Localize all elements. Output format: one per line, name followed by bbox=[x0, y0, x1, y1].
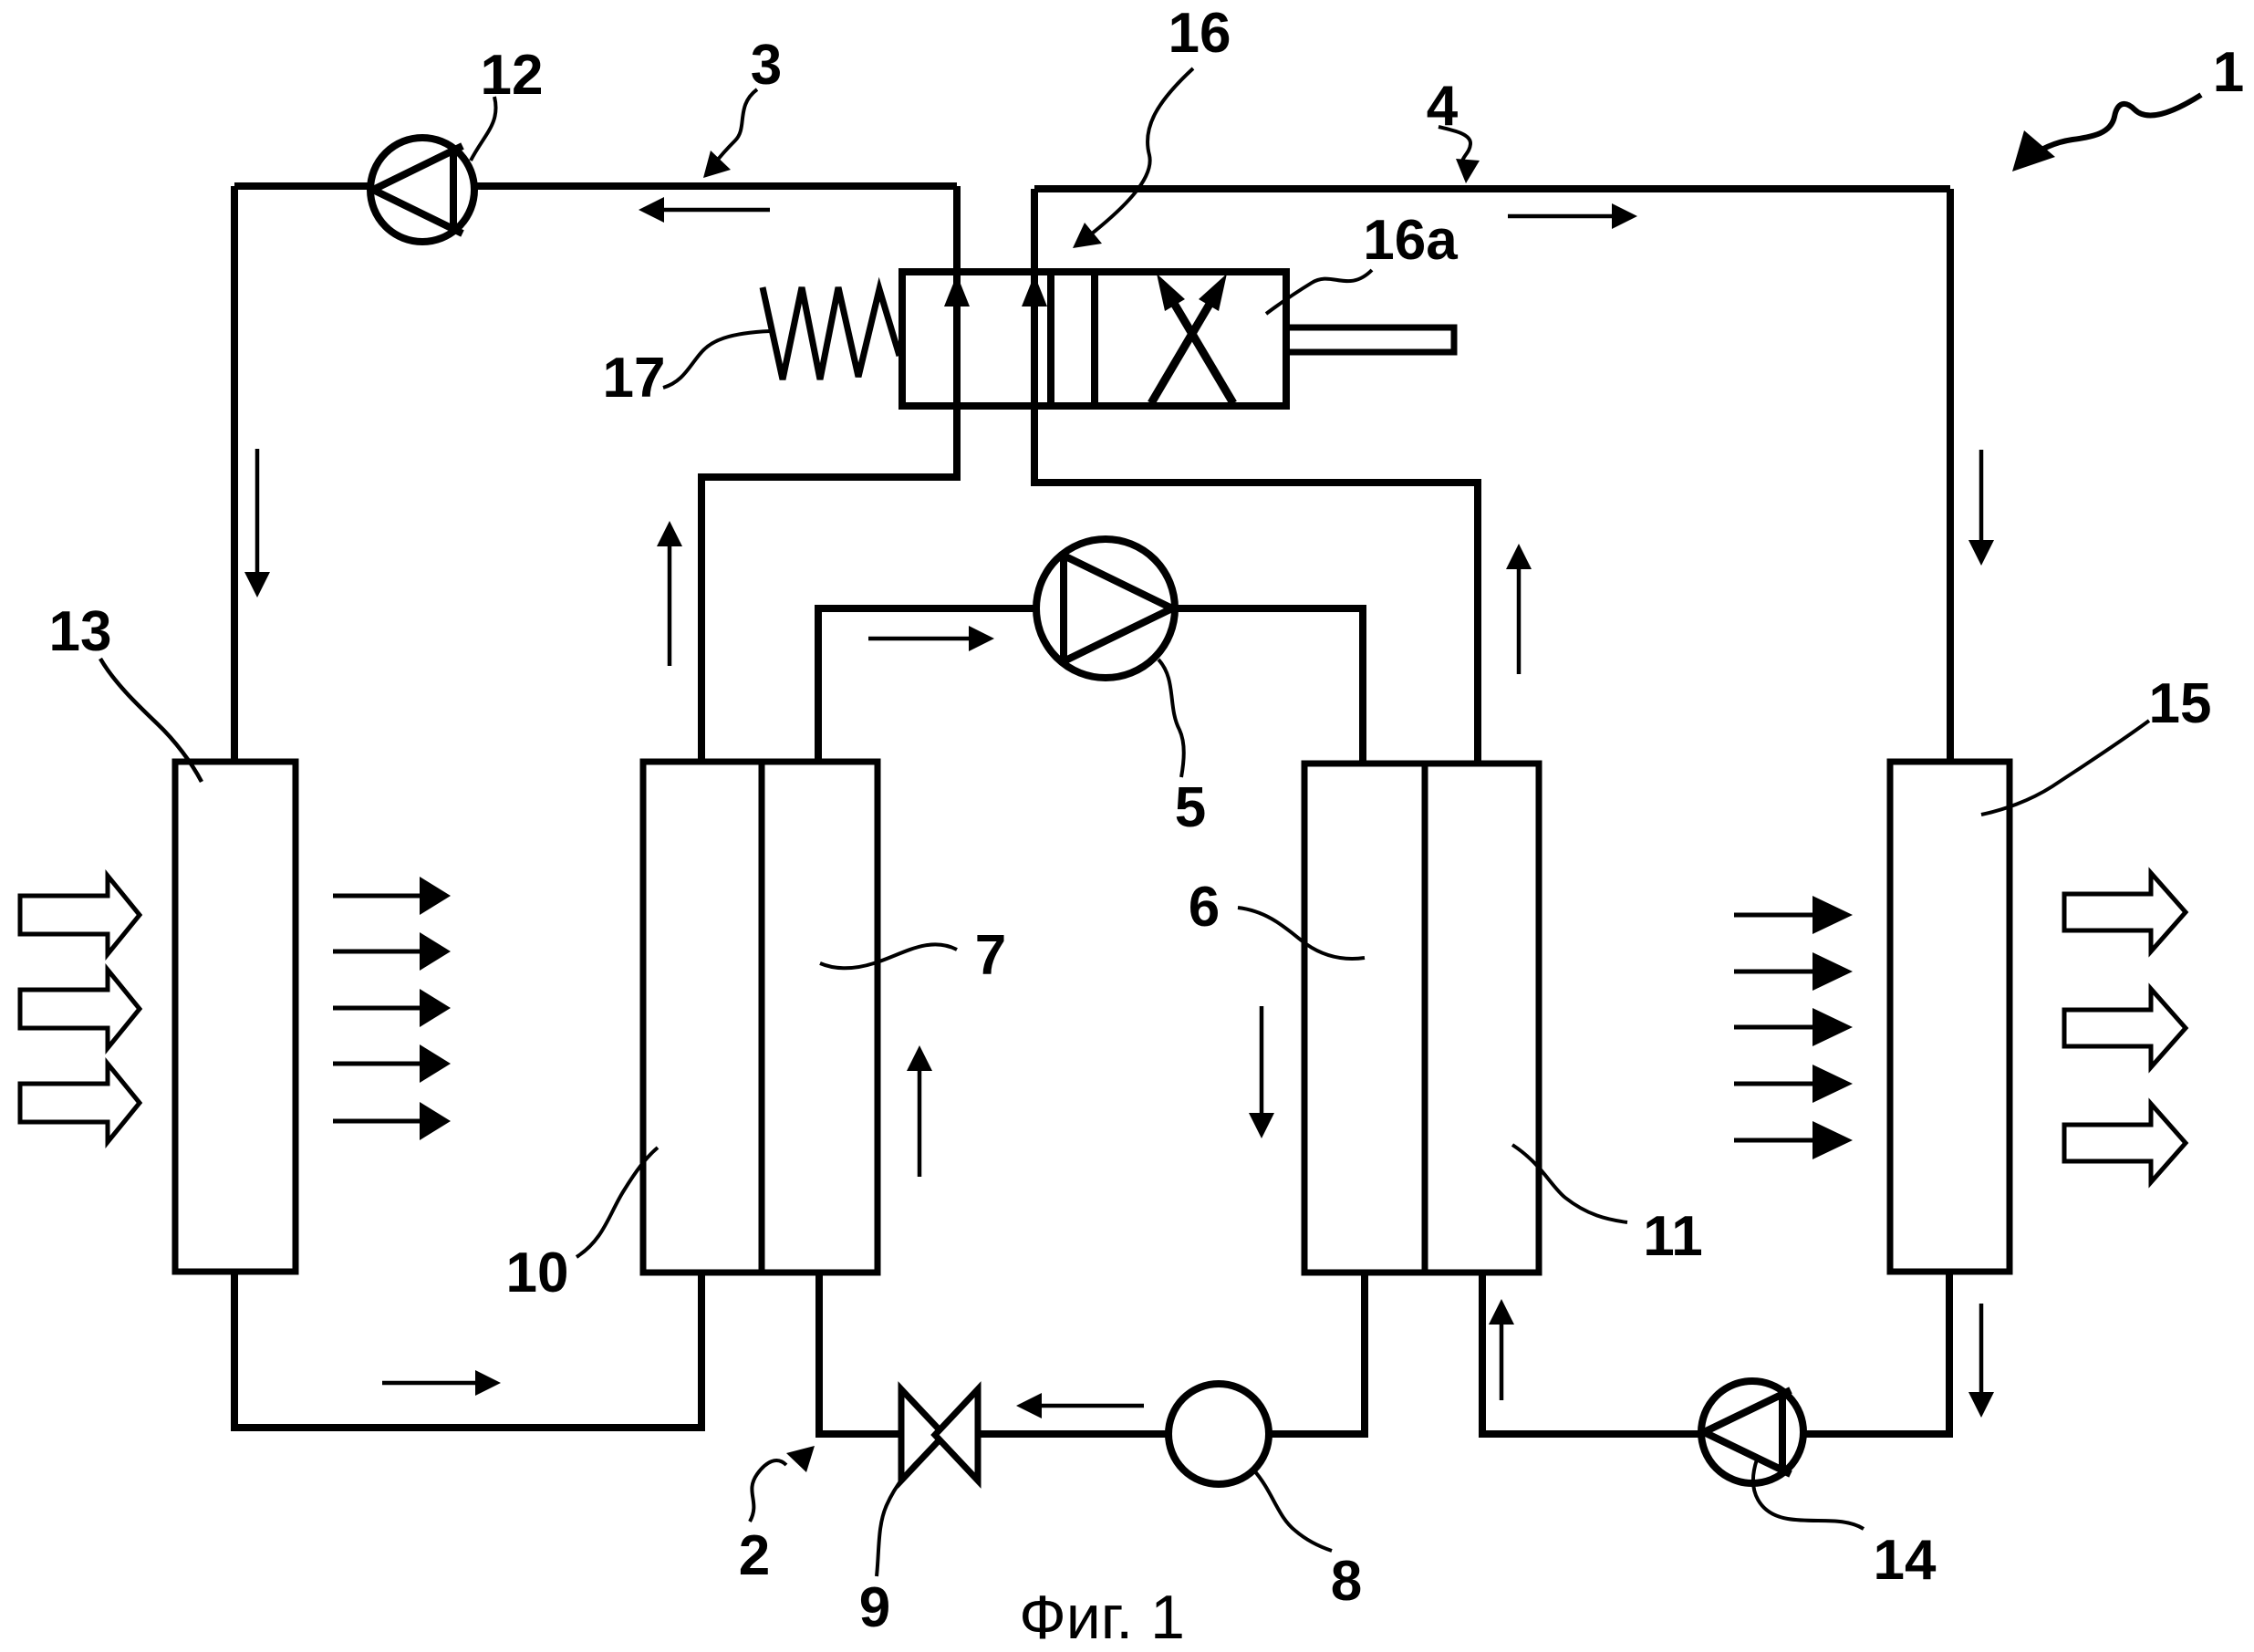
valve internal up arrow on pipe A bbox=[944, 275, 970, 307]
flow arrow down on left drop bbox=[244, 449, 270, 597]
pump 14 bbox=[1701, 1381, 1803, 1483]
leader for 15 bbox=[1981, 721, 2149, 815]
wire down into HX10 left cell top bbox=[698, 473, 705, 762]
wire HX13 bottom stub bbox=[231, 1272, 238, 1431]
heat exchanger 10/7 body bbox=[643, 762, 878, 1273]
hollow air arrows into HX13 bbox=[20, 876, 140, 1142]
leader for 2 (with arrowhead) bbox=[750, 1446, 815, 1522]
wire valve9 pump8 bottom horizontal bbox=[819, 1430, 1365, 1438]
wire right vertical drop to HX15 bbox=[1947, 189, 1954, 762]
leader for 16 (with arrowhead) bbox=[1073, 68, 1193, 248]
valve crossed arrow 1 (X cell) bbox=[1151, 274, 1227, 403]
leader for 7 bbox=[820, 944, 957, 968]
svg-text:8: 8 bbox=[1331, 1550, 1362, 1613]
heat exchanger 6/11 body bbox=[1304, 764, 1539, 1273]
leader for 12 bbox=[471, 97, 496, 161]
leader for 11 bbox=[1512, 1145, 1627, 1222]
leader for 13 bbox=[100, 659, 202, 782]
svg-text:7: 7 bbox=[975, 924, 1006, 987]
leader for 9 bbox=[877, 1449, 930, 1576]
leader for 10 bbox=[576, 1148, 658, 1257]
heat exchanger 13 bbox=[175, 762, 296, 1272]
wire pipe A valve left vertical bbox=[953, 186, 961, 477]
svg-text:15: 15 bbox=[2149, 672, 2212, 735]
pump 5 bbox=[1036, 539, 1175, 678]
flow arrow right on wire 4 bbox=[1508, 203, 1637, 229]
leader for 4 (with arrowhead) bbox=[1439, 127, 1480, 183]
solid air arrows into HX15 bbox=[1734, 896, 1853, 1159]
svg-text:13: 13 bbox=[49, 600, 112, 663]
flow arrow down on right drop upper bbox=[1968, 450, 1994, 566]
pump 12 bbox=[370, 138, 474, 242]
wire stub HX11 right cell bottom bbox=[1479, 1272, 1486, 1438]
svg-text:9: 9 bbox=[859, 1576, 890, 1639]
valve internal up arrow on pipe B bbox=[1022, 275, 1047, 307]
flow arrow up left of valve branch bbox=[657, 521, 682, 666]
leader for 1 (thick with large arrowhead) bbox=[2012, 95, 2201, 171]
wire bottom-left horizontal HX13 to HX10 bbox=[231, 1424, 701, 1431]
leader for 6 bbox=[1238, 908, 1365, 959]
flow arrow down in gap left of HX11 bbox=[1249, 1006, 1274, 1138]
flow arrow right into pump 5 bbox=[868, 626, 994, 651]
heat exchanger 15 bbox=[1890, 762, 2010, 1272]
leader for 8 bbox=[1253, 1470, 1332, 1551]
wire down into HX11 left cell top bbox=[1359, 605, 1366, 764]
wire line 4 top-right horizontal bbox=[1034, 185, 1950, 192]
leader for 14 bbox=[1753, 1460, 1864, 1529]
svg-text:12: 12 bbox=[481, 44, 544, 107]
wire stub HX11 left cell bottom bbox=[1361, 1272, 1368, 1438]
svg-text:Фиг. 1: Фиг. 1 bbox=[1019, 1583, 1185, 1652]
flow arrow up right of valve branch bbox=[1506, 544, 1532, 674]
svg-text:17: 17 bbox=[603, 347, 666, 410]
pump 8 (plain circle) bbox=[1169, 1384, 1269, 1484]
wire HX10 right cell top stub bbox=[815, 608, 822, 762]
svg-text:16a: 16a bbox=[1363, 209, 1458, 272]
wire line 3 top-left horizontal bbox=[234, 182, 957, 190]
wire valve-left to HX10 horizontal bbox=[701, 473, 961, 481]
wire valve-right to HX11 horizontal bbox=[1031, 479, 1478, 486]
svg-text:6: 6 bbox=[1189, 876, 1220, 939]
wire pump 5 horizontal bbox=[815, 605, 1363, 612]
flow arrow up in gap right of HX10 bbox=[907, 1045, 932, 1177]
flow arrow left on pump8 wire bbox=[1016, 1393, 1144, 1418]
expansion valve 9 (bowtie) bbox=[901, 1389, 978, 1481]
hollow air arrows out of HX15 bbox=[2064, 873, 2186, 1182]
leader for 3 (with arrowhead) bbox=[703, 89, 757, 178]
svg-text:4: 4 bbox=[1427, 75, 1459, 138]
svg-text:11: 11 bbox=[1643, 1205, 1703, 1268]
flow arrow up at HX11 right cell bottom bbox=[1489, 1299, 1514, 1400]
svg-text:16: 16 bbox=[1169, 2, 1231, 65]
wire down into HX11 right cell top bbox=[1474, 479, 1481, 764]
wire pipe B valve right vertical bbox=[1031, 189, 1038, 483]
svg-text:3: 3 bbox=[751, 34, 782, 97]
valve actuator rod 16a bbox=[1286, 327, 1454, 352]
flow arrow left on wire 3 bbox=[639, 197, 770, 223]
svg-text:1: 1 bbox=[2213, 41, 2244, 104]
flow arrow down on right drop lower bbox=[1968, 1304, 1994, 1418]
svg-text:10: 10 bbox=[506, 1242, 569, 1304]
four-way valve 16 body bbox=[902, 272, 1286, 406]
svg-text:2: 2 bbox=[739, 1524, 770, 1587]
wire stub up into HX10 left cell bbox=[698, 1272, 705, 1431]
spring 17 bbox=[763, 287, 899, 379]
valve crossed arrow 2 (X cell) bbox=[1157, 274, 1233, 403]
solid air arrows out of HX13 bbox=[333, 877, 451, 1140]
wire HX10 right cell bottom stub bbox=[815, 1272, 823, 1438]
leader for 16a bbox=[1266, 270, 1372, 314]
wire HX15 bottom stub bbox=[1946, 1272, 1953, 1438]
leader for 5 bbox=[1158, 660, 1184, 777]
svg-text:14: 14 bbox=[1874, 1529, 1937, 1592]
svg-text:5: 5 bbox=[1175, 776, 1206, 839]
flow arrow right on bottom-left wire bbox=[382, 1370, 501, 1396]
wire left vertical drop from line 3 to HX13 bbox=[231, 186, 238, 762]
wire pump 14 bottom horizontal bbox=[1482, 1430, 1953, 1438]
leader for 17 bbox=[663, 331, 770, 388]
